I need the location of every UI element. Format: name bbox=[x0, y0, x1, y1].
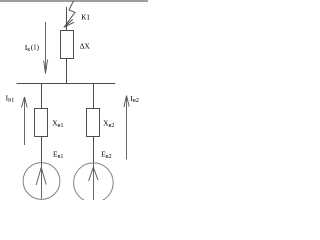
svg-text:Iв2: Iв2 bbox=[130, 94, 139, 104]
svg-text:К1: К1 bbox=[81, 12, 90, 21]
svg-text:ΔХ: ΔХ bbox=[80, 41, 91, 50]
svg-text:Ев2: Ев2 bbox=[101, 150, 111, 161]
svg-text:Ев1: Ев1 bbox=[53, 150, 63, 161]
svg-text:Хв1: Хв1 bbox=[52, 119, 63, 130]
svg-text:Iв1: Iв1 bbox=[6, 93, 15, 103]
svg-text:Iк(1): Iк(1) bbox=[25, 43, 40, 53]
svg-text:Хв2: Хв2 bbox=[103, 119, 114, 130]
